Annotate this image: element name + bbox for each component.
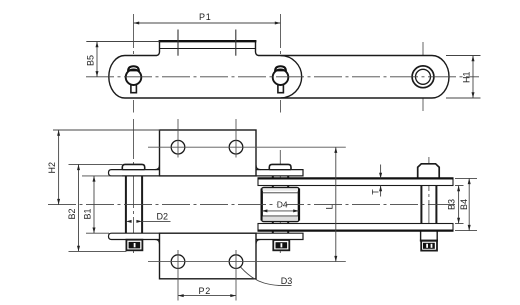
dimension B2 line — [78, 164, 80, 251]
dimension D4 line inside roller — [262, 210, 299, 212]
roller on pin 2 — [262, 188, 299, 222]
fillet right foot of top attachment — [256, 165, 261, 170]
dimension P2 line — [178, 295, 236, 297]
attachment tab top edge (thick) — [159, 40, 257, 42]
fillet left foot of top attachment — [155, 165, 160, 170]
dimension H1 line — [472, 56, 474, 99]
dimension B3 extension lines — [455, 185, 464, 187]
svg-text:P1: P1 — [199, 12, 212, 22]
cotter pin tail below pin 2 — [278, 84, 284, 93]
pin 1 head circle — [126, 69, 142, 85]
wire: pin 3 vertical centerline — [422, 42, 424, 111]
dimension B3 line — [458, 186, 460, 224]
wire: inner strip thick edge over pin3 bottom piece — [420, 230, 438, 232]
attachment hole bottom-right — [229, 255, 243, 269]
dimension B4 extension lines — [455, 177, 477, 179]
wire: horizontal centerline of upper view (dash-dot) — [86, 76, 479, 78]
dimension H2 extension line — [53, 129, 160, 131]
cotter box under pin 3 — [421, 241, 437, 251]
dimension B1 line — [93, 176, 95, 233]
cotter pin tail below pin 1 — [131, 84, 137, 93]
dimension B4 line — [468, 178, 470, 230]
pin 1 shaft (lower view) — [125, 176, 127, 233]
svg-text:H1: H1 — [461, 71, 471, 83]
pin 3 bottom end piece — [421, 231, 438, 241]
svg-text:P2: P2 — [199, 286, 212, 296]
bush inner circle at right end — [416, 69, 431, 84]
pin 2 head circle — [273, 69, 289, 85]
plate right-end arc of outer link (bulge at middle pin) — [281, 56, 302, 98]
wire: pin 1 vertical centerline — [133, 14, 135, 113]
svg-text:B3: B3 — [447, 199, 457, 210]
dimension L line — [335, 147, 337, 261]
attachment hole top-left — [171, 140, 185, 154]
node: attachment hole centerline A (upper view) — [177, 30, 179, 56]
dimension D2 leader and arrows — [142, 220, 170, 222]
wire: pin 1 vertical centerline (lower) — [133, 119, 135, 253]
cotter pin bent head above pin 1 (black) — [128, 66, 139, 70]
svg-text:D4: D4 — [277, 200, 288, 210]
top inner plate strip — [258, 178, 453, 185]
node: attachment hole centerline B (upper view) — [235, 30, 237, 56]
pin 2 shaft segments (lower view) — [272, 176, 274, 188]
fillet right foot of bottom attachment — [256, 240, 261, 244]
cotter box under pin 2 — [273, 240, 289, 250]
roller shaded bands — [263, 216, 298, 221]
cotter pin bent head above pin 2 (black) — [275, 66, 286, 70]
pin 3 top cap (chamfered) — [418, 164, 440, 179]
wire: attachment holes horizontal centerline (top row) — [148, 146, 346, 148]
wire: strip edge under cotter head pin1 — [122, 169, 144, 171]
attachment plate (bottom, with two holes) — [160, 233, 257, 279]
dimension B5 extension line — [86, 41, 159, 43]
svg-text:T: T — [371, 189, 381, 195]
svg-text:B1: B1 — [83, 208, 93, 219]
outer link plate with bent attachment tab (side view outline) — [109, 41, 449, 98]
attachment hole top-right — [229, 140, 243, 154]
wire: attachment hole vertical centerlines bottom plate — [177, 250, 179, 301]
bottom inner plate strip — [258, 224, 453, 231]
dimension B1 extension lines — [82, 175, 122, 177]
attachment hole bottom-left — [171, 255, 185, 269]
svg-text:B2: B2 — [67, 208, 77, 219]
dimension P1 line — [134, 22, 281, 24]
wire: attachment hole vertical centerlines top plate — [177, 119, 179, 158]
svg-text:L: L — [324, 204, 334, 209]
wire: attachment holes horizontal centerline (bottom row) — [148, 261, 346, 263]
cotter head on pin 2 (top) — [269, 164, 291, 169]
bush outer circle at right end — [412, 66, 434, 88]
wire: pin 3 vertical centerline (lower) — [428, 157, 430, 251]
pin 3 shaft (lower view) — [420, 186, 422, 224]
leader line for D3 — [241, 267, 279, 285]
wire: pin 2 vertical centerline (lower) — [279, 150, 281, 253]
svg-text:D2: D2 — [157, 212, 169, 222]
top outer plate strip — [109, 170, 304, 176]
dimension H1 extension lines — [446, 55, 481, 57]
wire: pin 2 vertical centerline — [280, 14, 282, 113]
dimension B2 extension lines — [69, 163, 123, 165]
wire: inner strip thick edge under pin3 cap — [417, 177, 440, 179]
bottom outer plate strip — [109, 233, 304, 239]
dimension T lines and arrows — [380, 165, 382, 179]
svg-text:B4: B4 — [459, 199, 469, 210]
dimension B5 line — [96, 42, 98, 77]
cotter box under pin 1 — [126, 240, 142, 251]
wire: strip edge under cotter head pin2 — [269, 169, 291, 171]
roller chamfer lines — [263, 192, 299, 194]
svg-text:B5: B5 — [86, 55, 96, 66]
attachment tab to plate junction line — [160, 48, 256, 50]
fillet left foot of bottom attachment — [155, 240, 160, 244]
dimension H2 line — [58, 130, 60, 205]
label D4 on centerline — [276, 200, 286, 210]
svg-text:H2: H2 — [47, 162, 57, 174]
svg-text:D3: D3 — [281, 276, 293, 286]
cotter head on pin 1 (top) — [122, 164, 144, 169]
wire: horizontal centerline of lower view (dash-dot) — [48, 204, 455, 206]
attachment plate (top, with two holes) — [160, 130, 257, 176]
